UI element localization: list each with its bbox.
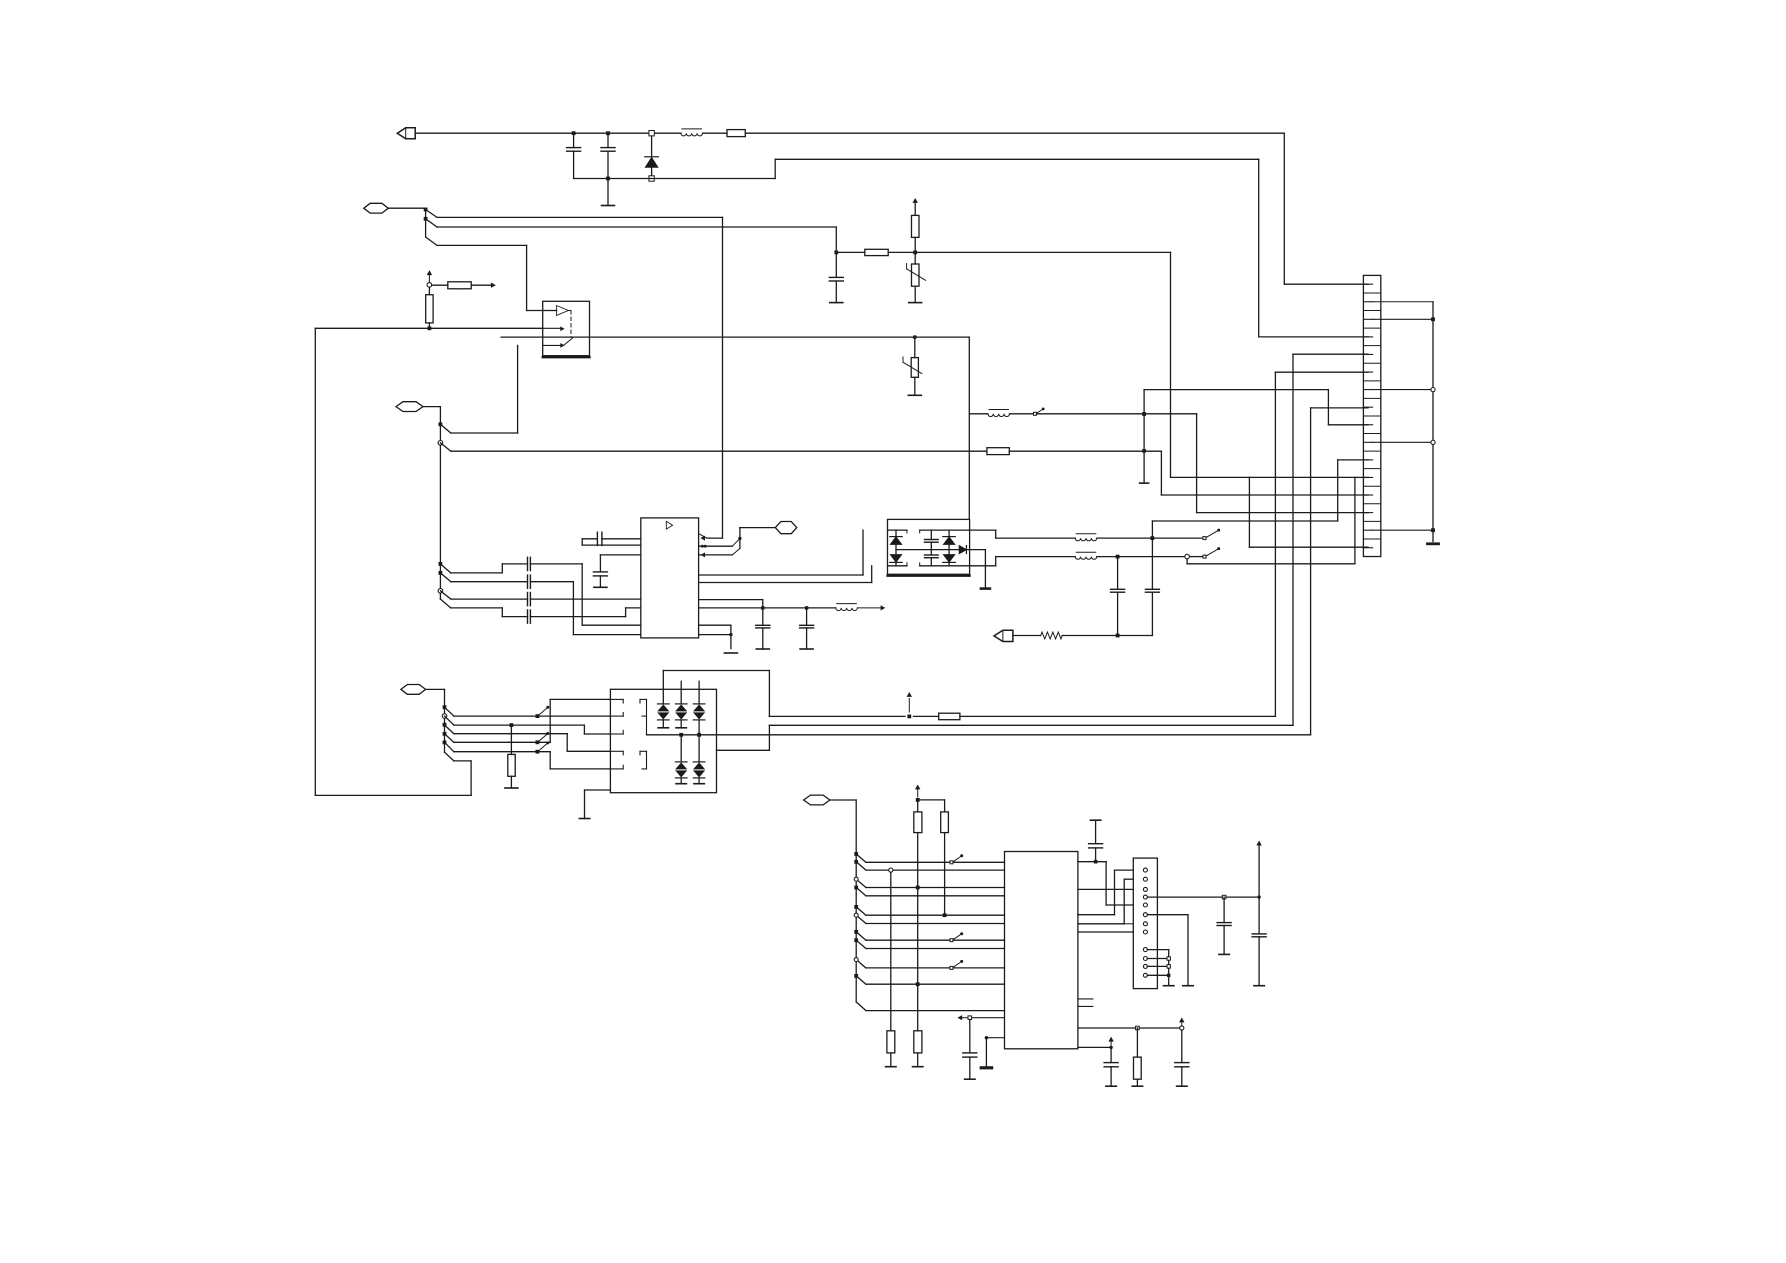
junction node aux-C10b [805, 606, 808, 609]
junction bus-pin3 [1431, 317, 1435, 321]
J1 pin3 right stub [1373, 318, 1433, 320]
wire return rail to connector pin4 [1259, 159, 1368, 337]
junction node R8-row [510, 723, 514, 727]
capacitor C8 feedback loop [582, 532, 641, 545]
ground stub below C2 [602, 179, 615, 206]
wire row A to U2 [530, 564, 640, 625]
wire U2 to bridge bottom [699, 566, 872, 583]
resistor R2 (pull-up) [912, 204, 920, 252]
wire P4 bottom loop [315, 328, 471, 795]
junction node R1-R2 [913, 251, 917, 255]
junction bus-pin10 (open) [1431, 440, 1435, 444]
junction node L1-arrow [907, 715, 911, 719]
resistor R10 [941, 800, 949, 915]
node P4-r2 (open) [442, 714, 447, 719]
wire inductor line [969, 413, 988, 415]
junction C15 [1094, 860, 1098, 864]
wire P2 stem [388, 208, 425, 237]
wire pin16 riser [1249, 477, 1368, 547]
U1 dashed link [568, 311, 571, 338]
junction node rail-C2 [606, 177, 610, 181]
junction node P2-b [424, 217, 428, 221]
wire U5 gnd pin [985, 1036, 1005, 1067]
wire U4 bottom tail [579, 790, 610, 819]
U1 pin2 stub [543, 327, 564, 330]
wire sense line [440, 443, 987, 451]
wire lamp line L1 [769, 715, 938, 717]
pin end bar [1140, 482, 1149, 484]
wire P3 stem [423, 407, 440, 599]
ground bar of bus [1428, 542, 1439, 545]
wire J2 lower bus [1147, 950, 1174, 986]
capacitor C5 [528, 575, 531, 588]
inductor L5 [836, 604, 858, 611]
wire row C [440, 591, 527, 599]
junction node VIN-C2 [606, 131, 610, 135]
junction R12 top [916, 982, 920, 986]
protection array U3 box [888, 519, 970, 575]
zener pair Z1 [890, 530, 902, 566]
U1 pin3 stub [543, 344, 564, 347]
U3 top feed from inductor line [968, 414, 970, 520]
junction node rowB [439, 571, 443, 575]
adjust tap blade [1034, 408, 1045, 416]
resistor R12 [913, 888, 923, 1067]
junction node aux-C10 [761, 606, 764, 609]
capacitor C6 [528, 593, 531, 606]
capacitor C3 [829, 252, 843, 302]
connector terminal P4 [401, 685, 426, 695]
wire line C [426, 237, 543, 311]
thermistor RT1 [907, 252, 926, 302]
wire P4 stem [426, 689, 445, 752]
J1 pin2 right stub [1373, 301, 1433, 303]
resistor R7 (zigzag) [1041, 632, 1063, 639]
capacitor C19 [1252, 897, 1266, 986]
wire R7 to caps [1062, 635, 1152, 637]
capacitor C15 top [1089, 820, 1103, 862]
wire pin11 link [1338, 459, 1368, 461]
signal arrow right of R4 [491, 283, 494, 287]
junction R10 bottom [943, 913, 947, 917]
wire line B continues right [915, 252, 1170, 477]
switch SW4 [536, 732, 550, 744]
junction R9 top [916, 798, 920, 802]
resistor R13 [1132, 1028, 1142, 1086]
power arrow Vdd [1109, 1038, 1113, 1046]
switch SW1 [1203, 529, 1220, 540]
wire net VIN top rail [415, 132, 1284, 134]
capacitor C13 [1145, 521, 1159, 636]
wire U5 Vdd pin [1078, 1046, 1111, 1048]
U4 left bracket bottom [610, 751, 646, 769]
J1 pin stubs [1363, 284, 1372, 548]
capacitor C10 [756, 608, 770, 649]
node R11 top (open) [889, 868, 893, 872]
junction node P4-r4 [443, 732, 447, 736]
junction node rowA [439, 562, 443, 566]
junction node J2out-C18 [1222, 895, 1226, 899]
resistor R1 [836, 249, 915, 255]
J2 contact circles [1143, 868, 1147, 977]
wire U1 pin3 net [440, 345, 517, 433]
U2 right pin A with arrow [699, 534, 723, 540]
capacitor C7 [528, 610, 531, 623]
connector terminal P6 [804, 795, 830, 805]
wire J2 circle7 stub [1124, 923, 1133, 925]
capacitor pair C11 [925, 530, 939, 566]
junction node C12-R7line [1116, 634, 1120, 638]
microcontroller U5 box [1005, 852, 1078, 1049]
junction bus-pin7 (open) [1431, 388, 1435, 392]
wire row C to U2 [530, 598, 640, 600]
capacitor C17 [1104, 1047, 1118, 1086]
op-amp U2 box [641, 518, 699, 638]
capacitor C1 [567, 133, 581, 178]
U5 signal out arrow [959, 1016, 1005, 1020]
wire fan bottom row [856, 1002, 1004, 1011]
zener pair Z2 [943, 530, 955, 566]
U3 middle rail [896, 549, 959, 551]
wire line S2 [970, 557, 1076, 566]
wire W79 drop [1143, 390, 1145, 484]
wire row T4 [445, 699, 611, 742]
junction node P3-a [439, 422, 443, 426]
wire U2 gnd pins [699, 625, 738, 653]
wire line A [426, 210, 723, 539]
junction node Vdd [1109, 1046, 1112, 1049]
U2 right pin B pair dots [699, 538, 740, 547]
junction node VIN-C1 [572, 131, 576, 135]
power arrow on L1 [907, 693, 911, 712]
J1 pin7 right stub [1373, 389, 1433, 391]
resistor R3 [426, 283, 433, 329]
capacitor C4 [528, 557, 531, 570]
wire U2 filter line [699, 607, 836, 609]
switch SW5 [536, 741, 550, 753]
resistor R6 [939, 713, 960, 720]
diode D1 (TVS across rail) [645, 131, 659, 182]
junction node W79-ind [1142, 412, 1146, 416]
junction node P4-r5 [443, 741, 447, 745]
resistor R4 [432, 282, 491, 289]
switch SW2 [1203, 547, 1220, 558]
wire SW2 common drop [1187, 477, 1355, 563]
switch SW6 [950, 854, 963, 864]
inductor L1 [681, 129, 703, 136]
wire R9-R10 top link [918, 799, 945, 801]
wire U5 power line [1078, 1027, 1182, 1029]
junction bus-pin15 [1431, 528, 1435, 532]
node SW2 common (open) [1185, 554, 1190, 559]
inductor L3 [1075, 552, 1097, 559]
thermistor RT2 [903, 339, 922, 395]
node P3-b (open) [438, 441, 443, 446]
wire J2 out line [1147, 896, 1259, 898]
wire line B [426, 219, 837, 253]
wire line S1 (top) [970, 530, 1076, 538]
wire P6 fan rows [854, 852, 1004, 984]
tvs diode pair DA3 [693, 681, 705, 735]
resistor R5 [987, 448, 1009, 455]
power arrow right [1180, 1019, 1184, 1026]
junction node pwr-R13 [1136, 1026, 1140, 1030]
junction node sense-1144 [1142, 449, 1146, 453]
junction node P4-r3 [443, 723, 447, 727]
wire U1 output line [501, 337, 969, 414]
tvs diode pair DA1 [658, 671, 670, 728]
wire lamp line L2 [717, 354, 1369, 750]
capacitor C9 to ground [593, 555, 640, 587]
signal arrow filter out [857, 606, 884, 610]
node pwr flag (open) [1180, 1026, 1184, 1030]
U1 switch blade [564, 337, 574, 345]
wire L1 to pin6 [960, 372, 1368, 716]
wire row T3 [445, 725, 611, 751]
capacitor C14 [963, 1020, 977, 1080]
connector terminal P5 (arrow flag) [994, 630, 1013, 641]
wire row T1 [445, 707, 611, 716]
power arrow above R9 [916, 786, 920, 798]
fuse F1 [727, 130, 745, 137]
junction node P4-r1 [443, 705, 447, 709]
switch SW3 [536, 706, 550, 718]
wire bus right of J1 [1432, 302, 1434, 542]
wire row D to U2 [530, 608, 640, 617]
wire row A [440, 564, 527, 573]
junction node U4 mid2 [679, 733, 683, 737]
capacitor C16 [1175, 1030, 1189, 1086]
socket J2 box [1133, 858, 1157, 989]
junction node S1-col [1150, 536, 1154, 540]
inductor L2 [1075, 534, 1097, 541]
wire U4 top link [663, 671, 769, 717]
U4 left bracket top [610, 699, 646, 734]
junction node U4 mid [697, 733, 701, 737]
wire P5 lead [1013, 635, 1041, 637]
U3 bottom rail [888, 563, 970, 566]
connector terminal P3 [396, 402, 423, 412]
junction node B-C3 [834, 251, 838, 255]
capacitor C10b [800, 608, 814, 649]
resistor R8 [505, 725, 518, 788]
wire S1 to switch SW1 [1097, 537, 1203, 539]
connector terminal P2 [364, 203, 389, 213]
tvs diode pair DA5 [693, 737, 705, 784]
power arrow J2 [1257, 842, 1261, 898]
resistor R11 [886, 872, 896, 1066]
wire to adjust tap [1010, 413, 1034, 415]
U2 triangle [666, 521, 672, 529]
wire inductor line to pin14 [1037, 414, 1369, 513]
wire to terminal P7 [740, 528, 775, 549]
wire bottom return rail [574, 159, 1259, 178]
relay driver U1 box [543, 301, 590, 357]
junction node lineB-pin16 [0, 0, 1, 1]
wire row B to U2 [530, 582, 640, 635]
tvs diode pair DA2 [675, 681, 687, 728]
wire row T2 [445, 716, 611, 734]
ground bar U5 [981, 1066, 991, 1069]
inductor L4 [988, 410, 1010, 417]
junction R9 bottom [916, 886, 920, 890]
edge connector J1 outline [1363, 275, 1380, 556]
wire net W79 [1144, 390, 1368, 425]
node rowC (open) [438, 589, 443, 594]
switch SW7 [950, 932, 963, 942]
wire row T5 [445, 742, 611, 769]
wire sense line to pin13 [1009, 451, 1368, 495]
U3 top rail [888, 530, 970, 533]
power arrow above R2 [913, 199, 917, 204]
wire row B [440, 573, 527, 582]
wire J2 pin6 gnd [1147, 915, 1193, 986]
wire net line-B right of U3 [1171, 476, 1369, 478]
connector terminal P7 [775, 522, 797, 534]
J1 pin10 right stub [1373, 441, 1433, 443]
capacitor C2 [601, 133, 615, 178]
junction node output-RT2 [913, 335, 916, 338]
J1 pin15 right stub [1373, 529, 1433, 531]
connector terminal P1 (left arrow flag) [397, 128, 415, 139]
junction node J2out-pwr [1257, 895, 1260, 898]
junction node S2-C12 [1116, 555, 1120, 559]
wire U5 to J2 nets [1078, 862, 1133, 932]
junction node P2-a [424, 208, 428, 212]
wire U2 aux out [699, 600, 763, 608]
wire jumper line [1152, 460, 1337, 521]
diode D2 series [959, 546, 985, 554]
resistor R9 [914, 800, 922, 888]
diode array U4 box [610, 689, 716, 792]
U2 right pin C with arrow [699, 548, 740, 556]
capacitor C12 [1111, 557, 1125, 636]
power arrow above R3 [428, 271, 432, 282]
switch SW8 [950, 960, 963, 970]
wire row D [440, 599, 527, 617]
wire U3 to ground [981, 550, 990, 589]
J1 pin dividers [1363, 293, 1380, 539]
wire lamp line L3 [647, 408, 1369, 735]
capacitor C18 [1217, 897, 1231, 954]
wire S2 to switch SW2 [1097, 556, 1203, 558]
U5 right stubs [1078, 999, 1093, 1007]
wire VIN to connector pin1 [1284, 133, 1368, 284]
wire P6 stem [830, 800, 856, 1002]
tvs diode pair DA4 [675, 735, 687, 784]
wire U1 pin2 line [315, 327, 542, 329]
U1 buffer triangle [543, 306, 569, 316]
junction node out-pair [738, 537, 741, 540]
wire U2 to bridge top [699, 530, 863, 575]
junction node R3-pin2line [428, 326, 432, 330]
